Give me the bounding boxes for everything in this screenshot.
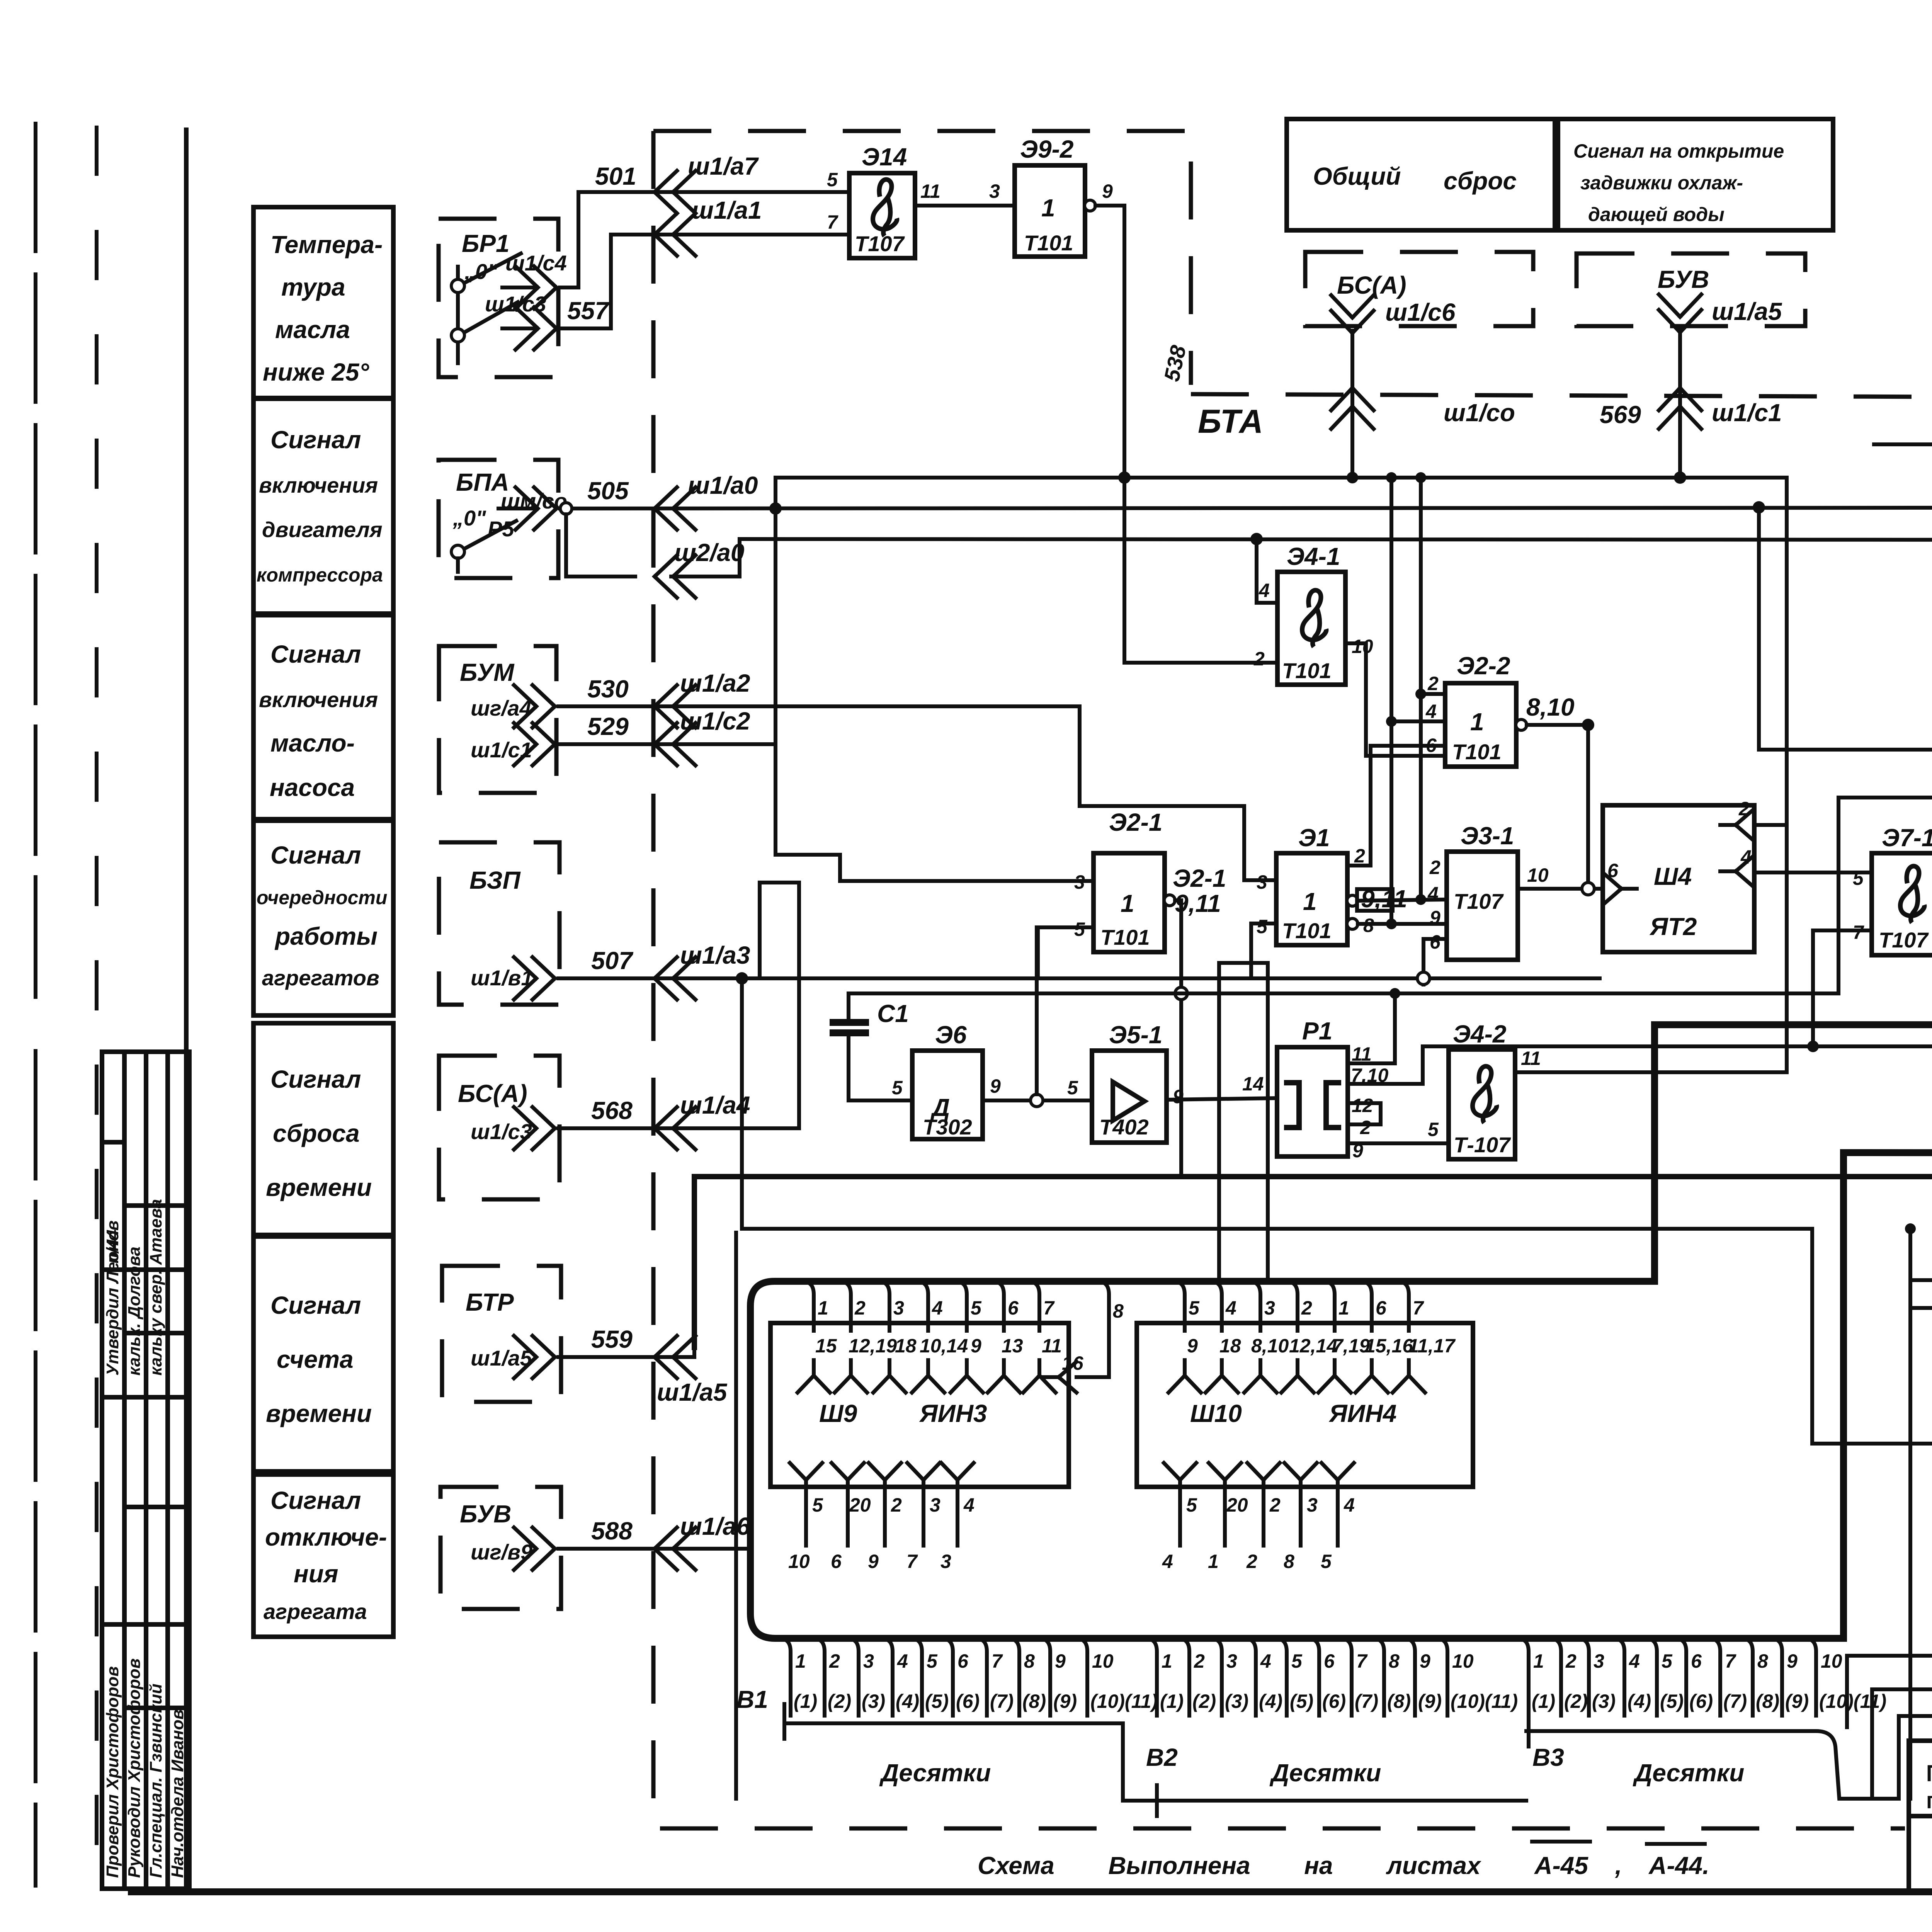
wire ш2/а0: [566, 514, 635, 577]
wire E7-1 pin7: [1813, 930, 1872, 1046]
svg-text:ш1/с2: ш1/с2: [680, 707, 750, 735]
wire E7-2 pin4: [1899, 1516, 1932, 1799]
svg-text:12,14: 12,14: [1289, 1335, 1337, 1357]
svg-text:1: 1: [1470, 708, 1484, 736]
svg-text:БУВ: БУВ: [460, 1500, 511, 1528]
wire counter enclosure left edge: [734, 1233, 738, 1799]
svg-text:(1): (1): [1160, 1690, 1184, 1712]
svg-text:Т-107: Т-107: [1454, 1133, 1511, 1157]
bottom frame line: [131, 1888, 1932, 1895]
block BS(A) left dashed box: [439, 1056, 560, 1199]
svg-text:10: 10: [1452, 1650, 1474, 1672]
BR1 contact 1: [451, 279, 464, 293]
svg-text:ш1/а6: ш1/а6: [680, 1512, 750, 1540]
svg-text:ЯИН3: ЯИН3: [919, 1400, 987, 1427]
label box: сигнал включения двигателя компрессора: [253, 399, 393, 614]
wire E3-2 pin7: [1759, 507, 1932, 750]
svg-text:569: 569: [1600, 401, 1641, 429]
svg-text:7: 7: [1043, 1297, 1055, 1319]
BR1 contact 2: [451, 329, 464, 342]
wire E8 pin3,6 stub: [1910, 1306, 1932, 1310]
svg-text:Т402: Т402: [1099, 1115, 1149, 1139]
svg-text:5: 5: [1189, 1297, 1200, 1319]
Sh10 bottom pins: [1164, 1463, 1196, 1495]
svg-text:8,10: 8,10: [1251, 1335, 1289, 1357]
Sh9 top hooks from bus: [802, 1281, 1039, 1331]
svg-text:9: 9: [1787, 1650, 1798, 1672]
block BR1 dashed box: [439, 219, 558, 377]
svg-text:Т107: Т107: [1879, 928, 1929, 952]
wire 501: [560, 192, 849, 287]
svg-text:В2: В2: [1146, 1743, 1178, 1771]
svg-text:3: 3: [1226, 1650, 1237, 1672]
svg-text:счета: счета: [277, 1345, 354, 1373]
svg-text:Сигнал: Сигнал: [270, 1065, 361, 1093]
svg-text:Общий: Общий: [1313, 162, 1401, 190]
svg-text:Э2-1: Э2-1: [1173, 864, 1226, 892]
svg-text:Ш9: Ш9: [819, 1400, 857, 1427]
svg-text:БЗП: БЗП: [469, 866, 521, 894]
svg-text:БС(А): БС(А): [458, 1080, 527, 1107]
svg-text:включения: включения: [259, 473, 378, 497]
svg-text:сброс: сброс: [1444, 167, 1517, 195]
svg-text:Э2-1: Э2-1: [1109, 808, 1163, 836]
wire C1 top to node: [849, 992, 1838, 995]
svg-text:529: 529: [587, 713, 629, 740]
svg-text:1: 1: [1303, 888, 1317, 915]
svg-text:Э4-2: Э4-2: [1453, 1020, 1507, 1048]
svg-text:9: 9: [990, 1075, 1001, 1097]
svg-text:2: 2: [1354, 845, 1365, 867]
BR1 common line: [456, 267, 460, 363]
svg-text:5: 5: [1853, 867, 1864, 889]
svg-text:ш2/а0: ш2/а0: [674, 539, 744, 566]
svg-text:Э9-2: Э9-2: [1020, 135, 1074, 163]
svg-text:(10)(11): (10)(11): [1451, 1690, 1518, 1712]
svg-text:ш1/а5: ш1/а5: [1712, 298, 1782, 325]
svg-text:очередности: очередности: [257, 887, 387, 908]
svg-text:5: 5: [1662, 1650, 1673, 1672]
svg-text:Ш10: Ш10: [1190, 1400, 1242, 1427]
svg-text:9: 9: [1102, 180, 1113, 202]
svg-text:5: 5: [827, 169, 838, 190]
wire riser bus1236 to E2-2.2 and 9,11 net: [1421, 478, 1444, 900]
wire E1.8 to E3-1.9: [1358, 922, 1447, 926]
svg-text:1: 1: [1338, 1297, 1349, 1319]
terminal v: [740, 539, 1932, 540]
svg-text:4: 4: [932, 1297, 943, 1319]
svg-text:ш1/а4: ш1/а4: [680, 1091, 750, 1119]
svg-text:масла: масла: [275, 316, 350, 344]
svg-text:Проверил Христофоров: Проверил Христофоров: [103, 1666, 122, 1878]
svg-text:7: 7: [1725, 1650, 1736, 1672]
svg-text:9: 9: [868, 1551, 879, 1572]
svg-text:11: 11: [920, 180, 940, 202]
svg-text:559: 559: [591, 1325, 633, 1353]
svg-text:кальк. Долгова: кальк. Долгова: [125, 1247, 144, 1376]
svg-text:5: 5: [971, 1297, 982, 1319]
svg-text:насоса: насоса: [270, 774, 355, 801]
svg-text:2: 2: [854, 1297, 866, 1319]
svg-text:4: 4: [1425, 701, 1437, 722]
wire E5-1.9 to P1.14: [1167, 1098, 1277, 1100]
svg-text:(8): (8): [1022, 1690, 1046, 1712]
svg-text:8: 8: [1024, 1650, 1035, 1672]
wire 559: [558, 1192, 694, 1357]
svg-text:18: 18: [1219, 1335, 1241, 1357]
label box: сигнал сброса времени: [253, 1023, 393, 1235]
svg-text:(10)(11): (10)(11): [1819, 1690, 1886, 1712]
svg-text:времени: времени: [266, 1400, 372, 1427]
svg-text:(7): (7): [1355, 1690, 1378, 1712]
left dashed margin line: [95, 128, 99, 1889]
element E4-1: [1277, 572, 1345, 685]
block BZP dashed box: [439, 842, 560, 1005]
svg-text:3: 3: [989, 180, 1000, 202]
svg-text:9: 9: [971, 1335, 981, 1357]
svg-text:тура: тура: [281, 273, 345, 301]
svg-text:557: 557: [567, 297, 610, 325]
svg-text:шг/а4: шг/а4: [471, 696, 532, 720]
BR1 output arrows: [502, 286, 536, 289]
svg-text:(7): (7): [1723, 1690, 1747, 1712]
svg-text:(6): (6): [1322, 1690, 1346, 1712]
svg-text:ш1/а0: ш1/а0: [688, 471, 758, 499]
svg-text:10: 10: [1821, 1650, 1842, 1672]
svg-text:7,19: 7,19: [1332, 1335, 1370, 1357]
left scan edge line: [34, 124, 37, 1886]
wire E2-1 out down: [1175, 900, 1181, 1175]
wire P1.9 to E4-2.5: [1348, 1141, 1449, 1145]
svg-text:5: 5: [1186, 1494, 1197, 1516]
svg-text:сброса: сброса: [273, 1119, 360, 1147]
svg-text:12,19: 12,19: [849, 1335, 897, 1357]
svg-text:1: 1: [818, 1297, 828, 1319]
wire E3-1 pin6: [1423, 939, 1447, 985]
svg-text:5: 5: [1321, 1551, 1332, 1572]
svg-text:507: 507: [591, 947, 634, 975]
wire ш1/а1: [560, 235, 849, 328]
label box: сигнал включения маслонасоса: [253, 615, 393, 819]
wire vertical 2007: [774, 478, 777, 855]
svg-text:9: 9: [1173, 1086, 1184, 1107]
svg-text:4: 4: [1629, 1650, 1640, 1672]
svg-text:(4): (4): [1628, 1690, 1651, 1712]
svg-text:(9): (9): [1053, 1690, 1077, 1712]
element E6: [912, 1051, 983, 1139]
block BS(A) top dashed box: [1305, 252, 1533, 326]
wire E3-1.10 to YAT2.6 with node: [1518, 887, 1603, 891]
svg-text:(6): (6): [956, 1690, 980, 1712]
svg-text:5: 5: [1291, 1650, 1303, 1672]
wire E9-2.9 down to bus 1236: [1095, 206, 1124, 663]
svg-text:Нач.отдела Иванов: Нач.отдела Иванов: [168, 1709, 187, 1878]
svg-text:Э7-1: Э7-1: [1882, 824, 1932, 852]
svg-text:6: 6: [1430, 931, 1441, 953]
svg-text:9: 9: [1430, 907, 1440, 929]
svg-text:10: 10: [1092, 1650, 1114, 1672]
wire E1.2 up to E2-2.6: [1347, 746, 1445, 866]
svg-text:(5): (5): [925, 1690, 949, 1712]
svg-text:Сигнал: Сигнал: [270, 841, 361, 869]
block BPA dashed box: [439, 460, 558, 578]
svg-text:1: 1: [1162, 1650, 1172, 1672]
svg-text:(5): (5): [1660, 1690, 1684, 1712]
wire 538 from BS(A): [1350, 331, 1354, 478]
svg-text:6: 6: [957, 1650, 969, 1672]
wire 529: [558, 742, 776, 746]
svg-text:БР1: БР1: [462, 230, 510, 257]
wire E14.11 to E9-2.3: [915, 204, 1015, 207]
wire E8 pin4: [1910, 1278, 1932, 1282]
wire E1.911 to E3-1.4: [1358, 900, 1447, 901]
svg-text:ш1/а2: ш1/а2: [680, 669, 750, 697]
svg-text:1: 1: [1533, 1650, 1544, 1672]
wire 505: [560, 507, 1932, 509]
svg-text:568: 568: [591, 1097, 633, 1124]
svg-text:11: 11: [1521, 1048, 1541, 1069]
svg-text:15: 15: [815, 1335, 837, 1357]
svg-text:16: 16: [1062, 1352, 1084, 1374]
svg-text:1: 1: [795, 1650, 806, 1672]
svg-text:Десятки: Десятки: [1633, 1759, 1744, 1787]
svg-text:Т107: Т107: [1454, 889, 1504, 913]
svg-text:1: 1: [1208, 1551, 1219, 1572]
terminal zh: [1838, 798, 1932, 993]
svg-text:Сигнал на открытие: Сигнал на открытие: [1573, 140, 1784, 162]
svg-text:2: 2: [891, 1494, 902, 1516]
signature table rotated captions: [103, 1199, 187, 1878]
svg-text:Схема Выполнена на листах: Схема Выполнена на листах А-45 , А-44.: [978, 1852, 1709, 1879]
svg-text:8: 8: [1284, 1551, 1294, 1572]
svg-text:2: 2: [1565, 1650, 1577, 1672]
svg-text:2: 2: [1194, 1650, 1205, 1672]
svg-text:4: 4: [1740, 846, 1752, 868]
svg-text:Э3-1: Э3-1: [1461, 822, 1514, 850]
svg-text:3: 3: [1257, 871, 1267, 893]
Sh9 bottom pins: [790, 1463, 822, 1495]
svg-text:2: 2: [1738, 798, 1750, 820]
wire E1 pin5: [1251, 923, 1276, 978]
svg-text:Т101: Т101: [1100, 925, 1150, 949]
svg-text:Т302: Т302: [923, 1115, 972, 1139]
svg-text:3: 3: [940, 1551, 951, 1572]
svg-text:4: 4: [1260, 1650, 1271, 1672]
svg-text:Ш4: Ш4: [1654, 862, 1692, 890]
svg-text:БТР: БТР: [466, 1288, 514, 1316]
svg-text:ш1/а5: ш1/а5: [471, 1346, 532, 1370]
svg-text:ш1/в1: ш1/в1: [471, 966, 533, 990]
svg-text:ш1/а3: ш1/а3: [680, 941, 750, 969]
svg-text:(4): (4): [1259, 1690, 1282, 1712]
svg-text:ш1/с6: ш1/с6: [1385, 298, 1456, 326]
svg-text:Десятки: Десятки: [1269, 1759, 1381, 1787]
block BUM dashed box: [439, 646, 556, 793]
svg-text:п/44: п/44: [103, 1230, 122, 1264]
svg-text:4: 4: [963, 1494, 975, 1516]
svg-text:(1): (1): [1532, 1690, 1555, 1712]
svg-text:15,16: 15,16: [1365, 1335, 1413, 1357]
svg-text:501: 501: [595, 162, 636, 190]
svg-text:кальку свер. Атаева: кальку свер. Атаева: [146, 1199, 165, 1376]
svg-text:4: 4: [1259, 580, 1270, 601]
svg-text:„0": „0": [464, 259, 498, 284]
svg-text:4: 4: [1427, 883, 1439, 905]
svg-text:3: 3: [930, 1494, 940, 1516]
block BUV top dashed box: [1577, 253, 1805, 326]
svg-text:14: 14: [1242, 1073, 1264, 1095]
svg-text:7: 7: [827, 211, 838, 233]
element E5-1: [1092, 1051, 1167, 1143]
svg-text:работы: работы: [274, 922, 378, 950]
svg-text:С1: С1: [877, 1000, 909, 1027]
element E4-2: [1449, 1049, 1515, 1159]
E4-1 pin4 notch: [1257, 572, 1277, 603]
wire 507: [558, 976, 1600, 980]
svg-text:10: 10: [1352, 636, 1373, 657]
svg-text:(9): (9): [1785, 1690, 1809, 1712]
wire 3180 band: [742, 978, 1932, 1444]
svg-text:20: 20: [849, 1494, 871, 1516]
svg-text:588: 588: [591, 1517, 633, 1545]
wire E2-1 pin5 from 507: [1038, 927, 1094, 978]
svg-text:Э2-2: Э2-2: [1457, 652, 1510, 680]
wire 588: [558, 1547, 750, 1551]
element E1: [1276, 853, 1347, 945]
svg-text:5: 5: [927, 1650, 938, 1672]
svg-text:2: 2: [1301, 1297, 1312, 1319]
svg-text:Э5-1: Э5-1: [1109, 1021, 1163, 1049]
svg-text:Сигнал: Сигнал: [270, 640, 361, 668]
svg-text:ЯИН4: ЯИН4: [1328, 1400, 1397, 1427]
terminal a: [1874, 442, 1932, 446]
terminal l thick: [1844, 1153, 1932, 1153]
svg-text:Гл.специал. Гзвинский: Гл.специал. Гзвинский: [146, 1684, 165, 1878]
svg-text:6: 6: [1607, 860, 1619, 881]
svg-text:БУМ: БУМ: [460, 658, 515, 686]
svg-text:Темпера-: Темпера-: [270, 231, 383, 259]
svg-text:Т101: Т101: [1282, 658, 1332, 683]
svg-text:4: 4: [1344, 1494, 1355, 1516]
svg-text:530: 530: [587, 675, 629, 703]
svg-text:Сигнал: Сигнал: [270, 1486, 361, 1514]
svg-text:6: 6: [1691, 1650, 1702, 1672]
wire E4-1 pin10 to E2-2.6: [1346, 643, 1444, 756]
left signal label column: [253, 207, 393, 1637]
terminal k: [1423, 1044, 1932, 1048]
svg-text:Руководил Христофоров: Руководил Христофоров: [125, 1658, 144, 1878]
svg-text:Т101: Т101: [1282, 918, 1332, 943]
svg-text:(2): (2): [828, 1690, 851, 1712]
svg-text:„0": „0": [452, 506, 486, 530]
svg-text:3: 3: [1264, 1297, 1275, 1319]
svg-text:масло-: масло-: [270, 729, 355, 757]
svg-text:ниже 25°: ниже 25°: [263, 358, 369, 386]
svg-text:6: 6: [1324, 1650, 1335, 1672]
block BTR left dashed box: [442, 1266, 561, 1402]
svg-text:(6): (6): [1689, 1690, 1713, 1712]
svg-text:Т101: Т101: [1452, 740, 1502, 764]
wire 569 from BUV: [1678, 330, 1682, 478]
svg-text:ш1/с1: ш1/с1: [1712, 399, 1782, 427]
svg-text:2: 2: [1246, 1551, 1257, 1572]
svg-text:9: 9: [1055, 1650, 1066, 1672]
svg-text:дающей воды: дающей воды: [1588, 204, 1725, 225]
svg-text:отключе-: отключе-: [265, 1523, 387, 1551]
svg-text:Т101: Т101: [1024, 231, 1073, 255]
label box: сигнал отключения агрегата: [253, 1475, 393, 1637]
svg-text:ш1/а1: ш1/а1: [692, 196, 762, 224]
svg-text:11: 11: [1042, 1335, 1062, 1357]
wire vertical 4944: [1908, 1229, 1912, 1799]
wire C1 to E6.5: [849, 1099, 912, 1102]
svg-text:9: 9: [1420, 1650, 1430, 1672]
thick collector bus under YaS1: [750, 998, 1932, 1638]
wire riser 4624 from bus 1236 to E4-2.11: [1515, 478, 1787, 1072]
svg-text:7: 7: [1413, 1297, 1424, 1319]
wire P1 12-2 strap: [1348, 1103, 1381, 1124]
svg-text:Э14: Э14: [862, 143, 907, 171]
svg-text:компрессора: компрессора: [257, 564, 383, 586]
svg-text:задвижки охлаж-: задвижки охлаж-: [1580, 172, 1743, 194]
svg-text:10: 10: [788, 1551, 810, 1572]
wire P1.7,10: [1348, 1046, 1423, 1084]
node on wire 505: [560, 503, 572, 514]
header box: Общий сброс: [1287, 119, 1555, 230]
svg-text:(2): (2): [1564, 1690, 1588, 1712]
svg-text:8: 8: [1757, 1650, 1768, 1672]
svg-text:9: 9: [1187, 1335, 1198, 1357]
block Sh4 YaT2: [1603, 805, 1754, 952]
svg-text:ш1/а7: ш1/а7: [688, 152, 759, 180]
svg-text:3: 3: [893, 1297, 904, 1319]
wire YAT2.4 to E7-1.5: [1754, 871, 1872, 874]
svg-text:2: 2: [1427, 673, 1439, 694]
svg-text:8: 8: [1389, 1650, 1400, 1672]
svg-text:(10)(11): (10)(11): [1090, 1690, 1158, 1712]
svg-text:Сигнал: Сигнал: [270, 1291, 361, 1319]
wire E2-2 out to YAT2.6: [1527, 725, 1588, 889]
element E2-1: [1094, 853, 1165, 952]
svg-text:(1): (1): [794, 1690, 817, 1712]
relay P1: [1277, 1047, 1348, 1156]
svg-text:(4): (4): [896, 1690, 919, 1712]
svg-text:2: 2: [1253, 648, 1265, 670]
svg-text:6: 6: [1376, 1297, 1387, 1319]
svg-text:(3): (3): [1592, 1690, 1616, 1712]
element E2-2: [1445, 683, 1516, 767]
svg-text:2: 2: [1429, 857, 1440, 878]
svg-text:4: 4: [1162, 1551, 1173, 1572]
wire P1.11: [1348, 993, 1395, 1063]
thick wire 3045 band: [694, 1177, 1932, 1361]
svg-text:7: 7: [906, 1551, 918, 1572]
header box: сигнал на открытие задвижки: [1558, 119, 1833, 230]
svg-text:4: 4: [1225, 1297, 1236, 1319]
svg-text:3: 3: [1594, 1650, 1604, 1672]
B1 bracket: [784, 1704, 1526, 1816]
svg-text:времени: времени: [266, 1173, 372, 1201]
wire riser bus1236 to E2-2.4 and 8 net: [1391, 478, 1444, 924]
svg-text:г. Ростов-на-Дону 1976г.: г. Ростов-на-Дону 1976г.: [1926, 1787, 1932, 1813]
label box: сигнал очередности работы агрегатов: [253, 821, 393, 1015]
wire 568: [558, 883, 799, 1128]
svg-text:5: 5: [1067, 1077, 1078, 1099]
svg-text:ния: ния: [294, 1560, 338, 1588]
svg-text:20: 20: [1226, 1494, 1248, 1516]
svg-text:8,10: 8,10: [1526, 693, 1575, 721]
svg-text:(8): (8): [1387, 1690, 1411, 1712]
